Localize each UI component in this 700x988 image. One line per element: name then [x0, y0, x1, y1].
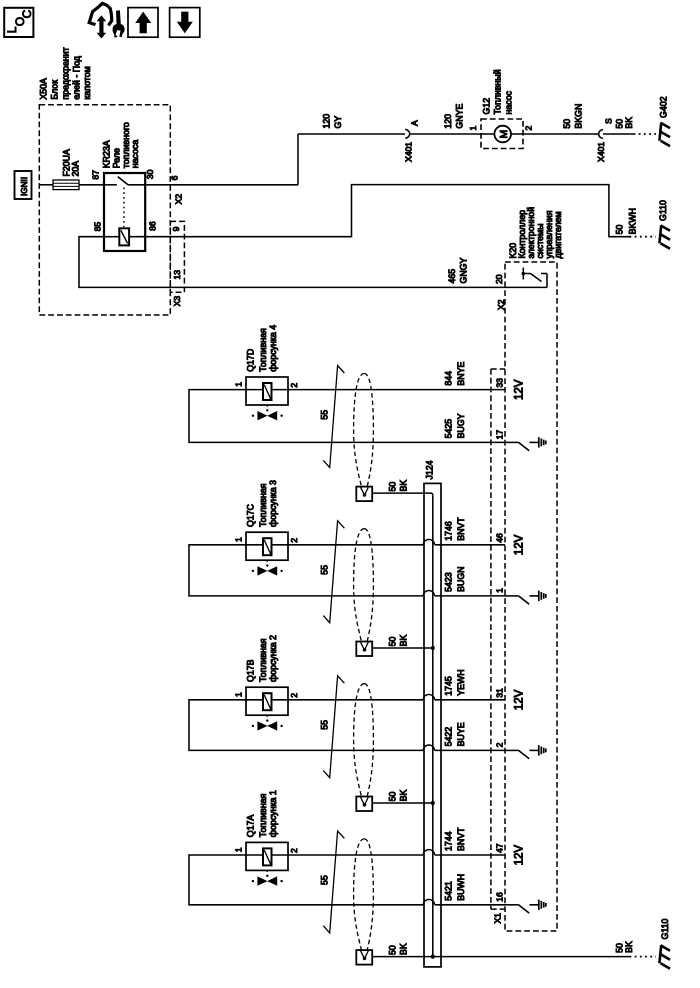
svg-text:2: 2: [289, 538, 299, 543]
svg-text:1: 1: [234, 537, 244, 542]
wire injector pin 1 loop: [189, 700, 423, 751]
svg-text:YEWH: YEWH: [456, 669, 466, 695]
svg-text:1746: 1746: [444, 521, 454, 541]
svg-text:форсунка 2: форсунка 2: [268, 635, 278, 682]
svg-text:12V: 12V: [514, 379, 526, 400]
svg-text:20A: 20A: [71, 161, 81, 177]
svg-text:Блок: Блок: [50, 80, 60, 100]
svg-text:форсунка 3: форсунка 3: [268, 480, 278, 527]
svg-text:X401: X401: [404, 142, 414, 162]
svg-text:насос: насос: [504, 90, 514, 114]
relay KR23A box: [104, 173, 145, 251]
svg-text:50: 50: [562, 119, 572, 129]
injector nozzle symbol: [266, 715, 268, 718]
svg-text:двигателем: двигателем: [553, 211, 563, 258]
svg-text:GY: GY: [333, 116, 343, 129]
svg-text:BKGN: BKGN: [574, 104, 584, 129]
svg-text:A: A: [410, 120, 420, 126]
J124 inner drain line: [432, 495, 434, 956]
svg-text:5421: 5421: [444, 881, 454, 901]
svg-text:Топливная: Топливная: [258, 483, 268, 527]
svg-text:BUWH: BUWH: [456, 874, 466, 901]
svg-text:5422: 5422: [444, 727, 454, 747]
vehicle navigation icon: [89, 3, 112, 25]
svg-text:5425: 5425: [444, 419, 454, 439]
shield drain box: [356, 642, 372, 657]
wire injector pin 2 feed: [288, 544, 423, 546]
svg-text:капотом: капотом: [82, 66, 92, 99]
wire injector pin 1 loop: [189, 545, 423, 596]
down arrow button: [170, 8, 200, 38]
svg-text:BNYE: BNYE: [456, 362, 466, 386]
svg-text:Q17B: Q17B: [246, 659, 256, 682]
connector X401 pin S: [599, 130, 603, 139]
shield drain wire 50 BK: [372, 493, 433, 495]
wire riser to fuel pump feed: [297, 134, 299, 185]
twisted pair slash 55: [323, 676, 344, 778]
svg-text:Топливный: Топливный: [493, 69, 503, 114]
ground G110 upper: [659, 225, 661, 243]
svg-text:предохранит: предохранит: [61, 47, 71, 99]
svg-text:30: 30: [145, 169, 155, 179]
K20 driver switch to ground: [505, 904, 519, 906]
svg-text:BUYE: BUYE: [456, 722, 466, 746]
svg-text:844: 844: [444, 371, 454, 386]
wire 120 GY to connector X401: [298, 133, 405, 135]
svg-text:12V: 12V: [514, 534, 526, 555]
svg-text:X401: X401: [596, 142, 606, 162]
svg-text:BK: BK: [624, 941, 634, 953]
svg-text:55: 55: [319, 410, 329, 420]
svg-text:20: 20: [494, 274, 504, 284]
connector X401 pin A: [405, 129, 409, 138]
ground G402: [659, 123, 661, 141]
svg-text:5423: 5423: [444, 572, 454, 592]
wire 50 BKGN to connector X401 S: [523, 133, 598, 135]
K20 connector X1 dashed boundary: [490, 369, 492, 909]
svg-text:Q17D: Q17D: [246, 349, 256, 372]
svg-text:Топливная: Топливная: [258, 793, 268, 837]
svg-text:M: M: [498, 130, 510, 139]
svg-text:9: 9: [171, 226, 181, 231]
ECM K20 dashed box: [505, 262, 557, 931]
shield drain box: [356, 797, 372, 812]
svg-text:BNVT: BNVT: [456, 827, 466, 851]
svg-text:BUGY: BUGY: [456, 413, 466, 438]
relay coil 85-86: [104, 236, 119, 238]
svg-text:465: 465: [447, 269, 457, 284]
svg-text:IGNII: IGNII: [20, 177, 29, 196]
fuel pump motor M: [481, 133, 494, 135]
fuse F20UA 20A: [53, 180, 79, 190]
svg-text:елей - Под: елей - Под: [72, 56, 82, 100]
injector coil: [246, 699, 263, 701]
svg-text:55: 55: [319, 565, 329, 575]
svg-text:G12: G12: [482, 98, 492, 115]
svg-text:1745: 1745: [444, 676, 454, 696]
svg-text:GNGY: GNGY: [459, 257, 469, 283]
svg-text:46: 46: [495, 533, 505, 543]
K20 pin 20 internal driver symbol: [505, 286, 547, 288]
svg-text:BNVT: BNVT: [456, 517, 466, 541]
wire injector pin 2 feed: [288, 854, 423, 856]
svg-text:насоса: насоса: [130, 140, 140, 169]
IGNII feed box: [15, 171, 32, 199]
svg-text:BK: BK: [399, 790, 409, 802]
svg-text:Топливная: Топливная: [258, 638, 268, 682]
svg-text:2: 2: [289, 848, 299, 853]
wire injector pin 2 feed: [288, 389, 505, 391]
svg-text:Q17C: Q17C: [246, 503, 256, 527]
svg-text:BK: BK: [399, 480, 409, 492]
svg-text:86: 86: [147, 221, 157, 231]
svg-text:2: 2: [289, 383, 299, 388]
wire relay 30 to connector X2 pin 6: [145, 184, 298, 186]
relay switch contact 87-30: [104, 184, 117, 186]
injector nozzle symbol: [266, 405, 268, 408]
twisted pair slash 55: [323, 521, 344, 623]
splice pack J124 bus: [424, 483, 441, 967]
svg-text:X1: X1: [493, 913, 503, 924]
svg-text:BK: BK: [624, 117, 634, 129]
svg-text:X2: X2: [174, 194, 184, 205]
wire 50 BK dotted to ground G402: [634, 133, 657, 135]
wire hops over J124 bus: [423, 539, 434, 544]
svg-text:1: 1: [495, 588, 505, 593]
svg-text:G402: G402: [659, 96, 669, 118]
wire injector pin 1 loop: [189, 855, 423, 905]
injector nozzle symbol: [266, 560, 268, 563]
svg-text:13: 13: [172, 270, 182, 280]
svg-text:1: 1: [468, 126, 478, 131]
LOC icon box: [4, 8, 33, 37]
shield ellipse: [354, 684, 365, 797]
svg-text:1: 1: [234, 382, 244, 387]
wire relay 85 loop to X3 pin 13: [79, 237, 505, 288]
svg-text:1744: 1744: [444, 831, 454, 851]
svg-text:L: L: [5, 26, 19, 33]
svg-text:50: 50: [388, 637, 398, 647]
svg-text:16: 16: [495, 892, 505, 902]
fuel pump G12 dashed box: [481, 119, 523, 149]
wire IGNII to fuse: [39, 184, 53, 186]
svg-text:120: 120: [322, 114, 332, 129]
shield ellipse: [354, 374, 365, 487]
injector coil: [246, 854, 263, 856]
injector coil: [246, 544, 263, 546]
shield ellipse: [354, 839, 365, 950]
svg-text:6: 6: [169, 175, 179, 180]
twisted pair slash 55: [323, 366, 344, 468]
svg-text:BK: BK: [399, 943, 409, 955]
svg-text:50: 50: [388, 792, 398, 802]
svg-text:12V: 12V: [514, 689, 526, 710]
svg-text:форсунка 4: форсунка 4: [268, 325, 278, 372]
svg-text:50: 50: [615, 225, 625, 235]
svg-text:55: 55: [319, 875, 329, 885]
injector Q17B box: [246, 687, 288, 715]
svg-text:BUGN: BUGN: [456, 566, 466, 591]
shield ellipse: [354, 529, 365, 642]
svg-text:2: 2: [289, 693, 299, 698]
relay actuator dotted link: [123, 188, 125, 228]
injector nozzle symbol: [266, 870, 268, 873]
svg-text:33: 33: [495, 378, 505, 388]
shield drain box: [356, 950, 372, 965]
svg-text:47: 47: [495, 843, 505, 853]
wire injector pin 1 loop: [189, 390, 505, 443]
svg-text:форсунка 1: форсунка 1: [268, 790, 278, 837]
up arrow button: [128, 8, 158, 38]
svg-text:C: C: [20, 9, 34, 18]
svg-text:50: 50: [388, 945, 398, 955]
svg-text:120: 120: [443, 114, 453, 129]
svg-text:50: 50: [388, 482, 398, 492]
injector Q17A box: [246, 842, 288, 870]
svg-text:87: 87: [91, 170, 101, 180]
svg-text:31: 31: [495, 688, 505, 698]
bottom drain wire 50 BK to ground G110: [372, 956, 434, 958]
svg-text:S: S: [604, 118, 614, 124]
shield drain wire 50 BK: [372, 802, 433, 804]
svg-text:2: 2: [495, 742, 505, 747]
svg-text:2: 2: [524, 126, 534, 131]
svg-text:12V: 12V: [514, 845, 526, 866]
svg-text:GNYE: GNYE: [455, 104, 465, 129]
svg-text:G110: G110: [660, 919, 670, 940]
K20 driver switch to ground: [505, 749, 519, 751]
shield drain wire 50 BK: [372, 647, 433, 649]
svg-text:KR23A: KR23A: [101, 140, 111, 168]
K20 driver switch to ground: [505, 441, 519, 443]
wire injector pin 2 feed: [288, 699, 423, 701]
fuse block X50A dashed box: [39, 105, 170, 315]
svg-text:1: 1: [234, 692, 244, 697]
svg-text:55: 55: [319, 720, 329, 730]
shield drain box: [356, 487, 372, 502]
injector coil: [246, 389, 263, 391]
svg-text:BKWH: BKWH: [627, 208, 637, 234]
svg-text:Реле: Реле: [112, 148, 122, 168]
wire relay 86 to ground G110: [145, 185, 629, 237]
svg-text:J124: J124: [424, 460, 434, 479]
wire fuse to relay pin 87: [79, 184, 104, 186]
twisted pair slash 55: [323, 831, 344, 933]
injector Q17C box: [246, 532, 288, 560]
svg-text:X3: X3: [172, 296, 182, 307]
svg-text:17: 17: [495, 430, 505, 440]
svg-text:1: 1: [234, 847, 244, 852]
svg-text:85: 85: [93, 222, 103, 232]
svg-text:G110: G110: [658, 200, 668, 221]
svg-text:X50A: X50A: [38, 78, 48, 100]
svg-text:BK: BK: [399, 635, 409, 647]
connector X3 dashed box pins 9 13: [170, 221, 184, 292]
K20 driver switch to ground: [505, 595, 519, 597]
injector Q17D box: [246, 377, 288, 405]
svg-text:Q17A: Q17A: [246, 815, 256, 838]
svg-text:Топливная: Топливная: [258, 328, 268, 372]
ground G110 lower: [659, 945, 661, 963]
